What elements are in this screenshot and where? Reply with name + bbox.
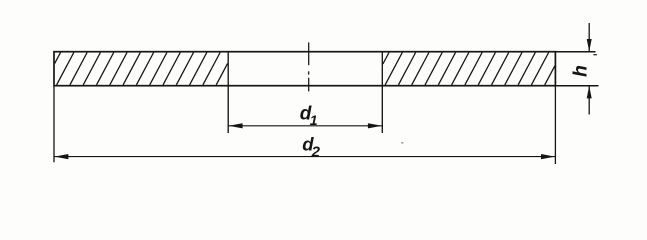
h dimension line lower	[588, 86, 590, 115]
d1 arrow right	[368, 123, 382, 128]
centerline	[308, 42, 310, 91]
d1 dimension line	[228, 125, 382, 127]
hatch right section	[383, 53, 555, 85]
d2 arrow left	[54, 154, 68, 159]
h dimension line upper	[588, 23, 590, 52]
washer section outline	[54, 52, 555, 86]
hole left edge + extension line	[227, 51, 229, 133]
h arrow up (lower)	[587, 86, 592, 99]
h extension line top	[555, 51, 595, 53]
d2 dimension line	[54, 156, 555, 158]
d2 extension line left	[53, 86, 55, 163]
hatch left section	[55, 53, 228, 85]
svg-text:h: h	[569, 65, 591, 77]
scan specks	[401, 54, 597, 144]
d1 arrow left	[229, 123, 243, 128]
d2 extension line right	[554, 86, 556, 164]
h arrow down (upper)	[587, 39, 592, 52]
svg-text:1: 1	[310, 112, 318, 128]
svg-text:2: 2	[311, 144, 321, 161]
h extension line bottom	[555, 85, 598, 87]
d2 arrow right	[541, 154, 555, 159]
hole right edge + extension line	[381, 51, 383, 133]
